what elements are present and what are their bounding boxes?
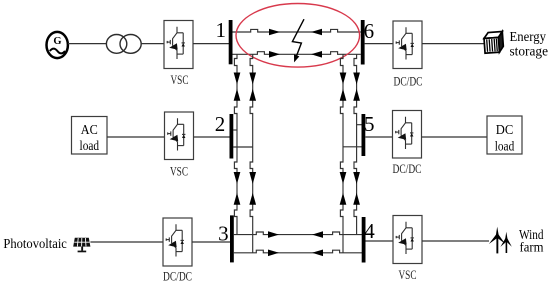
IGBT symbol in DC/DC storage converter: [396, 27, 414, 59]
photovoltaic panel icon: [73, 238, 90, 253]
arrows on right line C segment 6-5: [340, 73, 347, 85]
svg-text:G: G: [53, 36, 61, 47]
stub: bus5 to right line D: [357, 124, 362, 126]
svg-text:VSC: VSC: [171, 73, 189, 87]
arrows on right line C segment 5-4: [340, 172, 347, 184]
arrows on left line A segment 2-3: [234, 172, 241, 184]
fault current arrow on line 3-4 circuit 1 (from bus3): [268, 231, 279, 238]
svg-text:5: 5: [364, 112, 375, 136]
svg-text:4: 4: [364, 219, 375, 243]
DC line bus1-bus6 circuit 1 (with limiting reactors): [233, 29, 361, 32]
DC load box: [487, 116, 522, 154]
IGBT symbol in DC/DC5: [396, 117, 414, 149]
svg-text:AC: AC: [81, 122, 98, 137]
wire: VSC1 to bus 1: [193, 43, 229, 45]
bus 6 busbar: [361, 20, 365, 65]
transformer T1: [106, 35, 141, 54]
wire: DC/DC3 to bus 3: [192, 241, 230, 243]
wind turbine 1: [489, 227, 505, 254]
IGBT symbol in VSC6: [396, 222, 414, 254]
arrows on left line B segment 1-2: [249, 73, 256, 85]
wire: VSC2 to bus 2: [194, 136, 230, 138]
svg-text:farm: farm: [520, 241, 544, 256]
svg-text:storage: storage: [510, 45, 549, 60]
converter box VSC2 (AC load): [165, 112, 194, 160]
svg-text:DC/DC: DC/DC: [163, 270, 192, 284]
left DC line A (bus1 to bus3 via bus2), with reactors: [234, 54, 237, 234]
bus 2 busbar: [230, 114, 234, 159]
converter box DC/DC (energy storage): [393, 21, 422, 69]
stub: bus2 to left line A: [233, 129, 237, 131]
svg-text:DC/DC: DC/DC: [393, 162, 422, 176]
fault current arrow on line 1-6 circuit 2 (from bus1): [269, 51, 280, 58]
wire: DC/DC to energy storage: [422, 43, 485, 45]
DC line bus1-bus6 circuit 2 (with limiting reactors): [233, 52, 361, 55]
fault current arrow on line 1-6 circuit 1 (from bus6): [311, 29, 322, 36]
DC line bus3-bus4 circuit 2 (with limiting reactors): [234, 250, 362, 253]
converter box DC/DC (DC load): [393, 111, 422, 159]
energy storage icon (battery container): [484, 32, 504, 54]
svg-text:Energy: Energy: [510, 30, 547, 45]
svg-text:VSC: VSC: [170, 164, 188, 178]
arrows on right line D segment 5-4: [353, 172, 360, 184]
wire: bus 6 to DC/DC converter: [365, 43, 393, 45]
fault current arrow on line 1-6 circuit 1 (from bus1): [269, 29, 280, 36]
wire: PV to DC/DC3: [90, 241, 163, 243]
bus 4 busbar: [362, 217, 366, 263]
svg-text:DC: DC: [496, 122, 514, 137]
fault current arrow on line 3-4 circuit 1 (from bus4): [312, 231, 323, 238]
IGBT symbol in DC/DC3: [166, 224, 184, 256]
arrows on left line B segment 2-3: [249, 172, 256, 184]
svg-text:6: 6: [364, 19, 375, 43]
svg-text:VSC: VSC: [399, 268, 417, 282]
fault current arrow on line 1-6 circuit 2 (from bus6): [311, 51, 322, 58]
stub: bus2 to left line B: [233, 146, 253, 148]
IGBT symbol in VSC2: [168, 118, 186, 150]
svg-text:DC/DC: DC/DC: [394, 75, 423, 89]
right DC line C (bus6 to bus4 via bus5), with reactors: [340, 54, 343, 253]
red fault ellipse: [236, 4, 360, 68]
converter box VSC (wind farm): [393, 216, 422, 264]
arrows on right line D segment 6-5: [353, 73, 360, 85]
IGBT symbol in VSC1: [167, 27, 185, 59]
fault lightning symbol: [292, 19, 304, 57]
svg-text:2: 2: [215, 112, 226, 136]
wire: transformer to VSC1: [141, 43, 164, 45]
converter box DC/DC (photovoltaic): [163, 218, 192, 266]
svg-text:1: 1: [216, 18, 227, 42]
wire: VSC6 to wind farm: [422, 240, 489, 242]
left DC line B (bus1 to bus3 via bus2), with reactors: [250, 54, 253, 253]
converter box VSC1 (grid-side): [164, 21, 193, 69]
svg-text:Photovoltaic: Photovoltaic: [3, 237, 67, 252]
wire: generator to transformer: [68, 43, 106, 45]
svg-text:3: 3: [218, 222, 229, 246]
fault current arrow on line 3-4 circuit 2 (from bus3): [268, 250, 279, 257]
svg-text:load: load: [495, 138, 515, 153]
DC line bus3-bus4 circuit 1 (with limiting reactors): [234, 232, 362, 235]
bus 5 busbar: [362, 114, 366, 156]
wind turbine 2: [500, 232, 511, 253]
bus 1 busbar: [229, 20, 233, 64]
stub: bus5 to right line C: [343, 146, 362, 148]
arrows on left line A segment 1-2: [234, 73, 241, 85]
wire: bus4 to VSC6: [366, 240, 394, 242]
bus 3 busbar: [230, 215, 234, 262]
wire: AC load to VSC2: [107, 136, 165, 138]
wire: bus5 to DC/DC5: [365, 136, 392, 138]
generator G: [47, 32, 68, 58]
right DC line D (bus6 to bus4 via bus5), with reactors: [354, 54, 357, 234]
svg-text:load: load: [80, 138, 100, 153]
wire: DC/DC5 to DC load: [422, 136, 488, 138]
AC load box: [72, 117, 108, 155]
fault current arrow on line 3-4 circuit 2 (from bus4): [312, 250, 323, 257]
